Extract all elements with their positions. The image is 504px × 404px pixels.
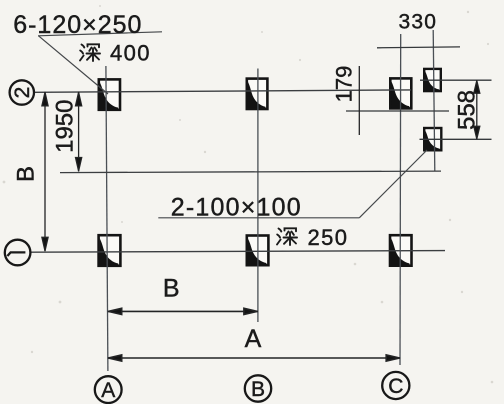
svg-text:6-120×250: 6-120×250 [13, 11, 142, 39]
svg-text:A: A [101, 379, 115, 402]
small anchor hole bottom (offset) [424, 128, 441, 150]
axis circle C [382, 372, 409, 399]
leader line from 2-100x100 label to small bottom hole [359, 150, 427, 218]
wire: 179 bottom extension line [346, 110, 449, 112]
anchor hole B1 [247, 236, 269, 266]
anchor hole C1 [390, 235, 412, 266]
dimension B (left) vertical line [42, 92, 48, 252]
svg-text:C: C [388, 375, 403, 398]
svg-text:400: 400 [110, 40, 151, 65]
leader line from 6-120x250 label to hole A2 [39, 36, 109, 94]
wire: column C axis line [399, 34, 402, 365]
wire: long reference line (bottom of 1950 dim) [60, 171, 441, 173]
wire: row-2 axis line [35, 90, 412, 92]
anchor hole C2 [390, 78, 411, 108]
label shen 400 (depth 400) [80, 40, 151, 65]
dimension B (bottom) horizontal line [108, 308, 258, 314]
svg-text:2-100×100: 2-100×100 [171, 193, 302, 221]
svg-text:B: B [12, 166, 39, 182]
dimension 1950 vertical line [76, 92, 82, 172]
svg-text:2: 2 [11, 87, 34, 99]
svg-text:558: 558 [453, 90, 480, 130]
small anchor hole top (offset) [424, 69, 441, 91]
svg-text:B: B [163, 275, 180, 303]
dimension 179 vertical line [358, 66, 360, 135]
wire: 558 top extension line [420, 79, 492, 81]
svg-text:330: 330 [399, 11, 438, 34]
label shen 250 (depth 250) [277, 225, 348, 250]
dimension 558 vertical line [474, 80, 480, 139]
svg-text:1950: 1950 [51, 100, 78, 153]
wire: offset line right of C [433, 30, 435, 172]
svg-text:B: B [251, 378, 265, 401]
dimension A horizontal line [108, 355, 401, 361]
anchor hole A2 [99, 79, 120, 109]
anchor hole B2 [247, 79, 268, 109]
svg-text:A: A [245, 325, 262, 353]
underline of 6-120x250 label [38, 32, 162, 36]
axis circle 2 [10, 80, 35, 104]
wire: row-1 axis line [31, 251, 445, 253]
svg-text:250: 250 [308, 225, 349, 250]
anchor hole A1 [99, 235, 121, 266]
wire: column A axis line [106, 66, 108, 371]
axis circle B [245, 375, 271, 401]
underline of 2-100x100 label [158, 217, 359, 219]
wire: column B axis line [257, 69, 259, 323]
wire: 330 dimension line [377, 46, 460, 49]
wire: 558 bottom extension line [420, 138, 492, 140]
axis circle A [95, 376, 122, 403]
svg-text:179: 179 [332, 66, 357, 103]
axis circle 1 [5, 240, 31, 266]
